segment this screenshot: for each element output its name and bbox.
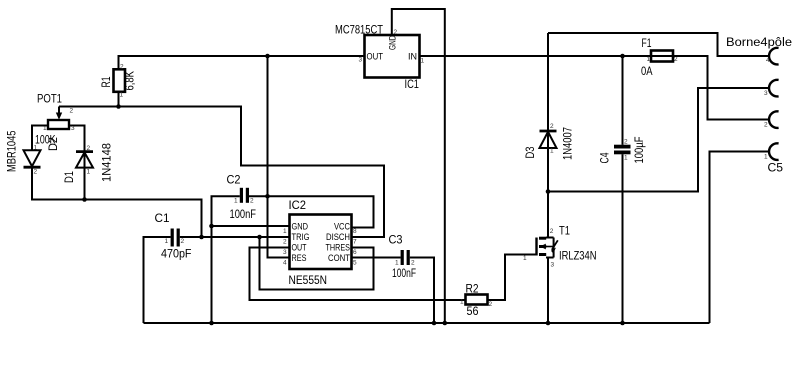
svg-text:C3: C3 [389, 235, 403, 247]
svg-text:3: 3 [764, 90, 768, 97]
svg-text:TRIG: TRIG [292, 232, 310, 242]
node C4 top junction [620, 54, 625, 59]
svg-text:OUT: OUT [292, 243, 307, 253]
svg-text:IRLZ34N: IRLZ34N [559, 251, 597, 263]
svg-text:DISCH: DISCH [326, 232, 350, 242]
wire +15V riser down to 555 RES pin 4 [268, 56, 290, 258]
wire 555 CONT to C3 pin 1 [352, 257, 401, 259]
node ground riser / GND pin tee [209, 224, 214, 229]
svg-text:VCC: VCC [334, 222, 350, 232]
resistor R1 [101, 64, 137, 99]
svg-text:2: 2 [394, 29, 398, 36]
svg-text:1: 1 [764, 154, 768, 161]
diode D2 MBR1045 [7, 131, 61, 176]
svg-text:5: 5 [353, 260, 357, 267]
svg-text:2: 2 [489, 301, 493, 308]
svg-text:3: 3 [283, 249, 287, 256]
capacitor C4 100uF [600, 137, 647, 164]
wire C4 vertical from supply to ground rail [622, 56, 624, 323]
wire ground rail [144, 322, 710, 324]
svg-text:1: 1 [234, 198, 238, 205]
wire R1 bottom to POT1 wiper and DISCH loop [59, 92, 384, 237]
svg-text:Borne4pôle: Borne4pôle [726, 37, 792, 49]
svg-text:R1: R1 [101, 77, 113, 88]
wire 555 GND pin [212, 225, 290, 227]
svg-text:1N4007: 1N4007 [563, 127, 575, 160]
svg-text:2: 2 [181, 238, 185, 245]
wire connector pin 1 riser [710, 152, 770, 324]
svg-text:C5: C5 [768, 163, 784, 175]
wire motor plus from drain net top to connector pin 4 [548, 33, 770, 56]
node D1 anode junction [82, 197, 87, 202]
svg-text:1: 1 [165, 238, 169, 245]
svg-text:3: 3 [359, 57, 363, 64]
svg-text:2: 2 [764, 122, 768, 129]
svg-text:THRES: THRES [326, 243, 351, 253]
node C4 ground junction [620, 321, 625, 326]
capacitor C1 470pF [155, 213, 192, 261]
svg-text:100nF: 100nF [230, 209, 257, 221]
timer IC2 NE555N [283, 200, 357, 287]
svg-text:1: 1 [421, 58, 425, 65]
node TRIG tee junction [257, 235, 262, 240]
svg-text:2: 2 [70, 108, 74, 115]
wire drain tap to connector pin 3 [548, 88, 770, 192]
node C3 ground junction [432, 321, 437, 326]
wire fuse to connector pin 2 [673, 56, 770, 120]
capacitor C2 100nF [227, 175, 257, 222]
transistor T1 IRLZ34N [523, 226, 597, 269]
svg-text:7: 7 [353, 239, 357, 246]
potentiometer POT1 100K [35, 94, 75, 147]
svg-text:1: 1 [624, 155, 628, 162]
node T1 source ground junction [546, 321, 551, 326]
wire D2 cathode down and right to C1/TRIG junction [32, 166, 202, 237]
svg-text:IC1: IC1 [405, 79, 420, 91]
svg-text:C4: C4 [600, 152, 612, 163]
wire IC1 IN to fuse F1 [420, 55, 652, 57]
svg-text:1: 1 [87, 169, 91, 176]
svg-text:470pF: 470pF [161, 249, 192, 261]
wire C1 pin 1 to ground rail [144, 237, 171, 323]
svg-text:CONT: CONT [328, 253, 350, 263]
wire TRIG to THRES loop [260, 237, 374, 290]
svg-text:8: 8 [353, 228, 357, 235]
node C1/diode junction [199, 235, 204, 240]
svg-text:2: 2 [283, 239, 287, 246]
svg-text:100µF: 100µF [634, 137, 646, 164]
svg-text:1: 1 [647, 56, 651, 63]
svg-text:0A: 0A [641, 66, 653, 78]
connector C5 Borne4pole [726, 37, 792, 175]
svg-text:1: 1 [283, 228, 287, 235]
svg-text:2: 2 [250, 198, 254, 205]
svg-text:D1: D1 [64, 171, 76, 183]
svg-text:2: 2 [550, 228, 554, 235]
svg-text:2: 2 [87, 145, 91, 152]
node drain tap junction [546, 189, 551, 194]
svg-text:6,8K: 6,8K [125, 71, 137, 91]
node +15V rail junction [265, 54, 270, 59]
wire POT1 pin 3 down through D1 to junction [69, 126, 85, 200]
svg-text:R2: R2 [466, 284, 479, 296]
svg-text:T1: T1 [559, 226, 570, 238]
svg-text:RES: RES [292, 253, 307, 263]
svg-text:OUT: OUT [367, 52, 384, 62]
wire C1 pin 2 to 555 TRIG [180, 236, 290, 238]
capacitor C3 100nF [389, 235, 417, 281]
wire T1 source to ground rail [547, 258, 549, 324]
resistor R2 56 [460, 284, 493, 319]
svg-text:IN: IN [408, 52, 417, 62]
svg-text:1: 1 [395, 260, 399, 267]
wire +15V rail from R1 top to IC1 OUT [119, 56, 365, 69]
wire IC1 GND loop to ground rail [392, 9, 445, 323]
wire C2 pin 2 to 555 VCC [249, 196, 374, 227]
wire C2 pin 1 to ground riser [212, 196, 240, 323]
svg-text:4: 4 [766, 57, 770, 64]
svg-text:2: 2 [674, 56, 678, 63]
fuse F1 0A [641, 38, 678, 78]
svg-text:POT1: POT1 [37, 94, 62, 106]
svg-text:2: 2 [34, 169, 38, 176]
wire 555 OUT to R2 pin 1 [250, 248, 466, 301]
svg-text:NE555N: NE555N [289, 275, 328, 287]
svg-text:C2: C2 [227, 175, 241, 187]
svg-text:1: 1 [120, 92, 124, 99]
svg-text:100nF: 100nF [392, 268, 416, 280]
svg-text:2: 2 [411, 260, 415, 267]
node R1/POT1 wiper junction [116, 104, 121, 109]
wire R2 pin 2 to T1 gate [488, 255, 537, 301]
svg-text:2: 2 [550, 123, 554, 130]
voltage regulator IC1 MC7815CT [335, 25, 425, 92]
svg-text:MBR1045: MBR1045 [7, 131, 19, 173]
svg-text:GND: GND [292, 222, 309, 232]
svg-text:1: 1 [34, 145, 38, 152]
svg-text:D3: D3 [525, 147, 537, 159]
svg-text:6: 6 [353, 249, 357, 256]
node regulator ground at rail [443, 321, 448, 326]
node VCC riser junction [265, 194, 270, 199]
svg-text:1: 1 [550, 148, 554, 155]
wire C3 pin 2 to ground rail [410, 258, 434, 324]
svg-text:1: 1 [460, 299, 464, 306]
node ground rail at C2 riser [209, 321, 214, 326]
wire POT1 pin 1 down to D2 [32, 126, 48, 151]
svg-text:GND: GND [388, 35, 398, 50]
svg-text:2: 2 [624, 139, 628, 146]
svg-text:1: 1 [523, 255, 527, 262]
svg-text:IC2: IC2 [289, 200, 307, 212]
svg-text:56: 56 [467, 306, 479, 318]
svg-text:F1: F1 [642, 38, 652, 50]
svg-text:3: 3 [551, 262, 555, 269]
svg-text:C1: C1 [155, 213, 170, 225]
svg-text:4: 4 [283, 260, 287, 267]
svg-text:2: 2 [120, 64, 124, 71]
diode D3 1N4007 [525, 123, 575, 160]
svg-text:D2: D2 [48, 137, 60, 151]
wire top rail down through D3 to T1 drain [547, 33, 549, 238]
diode D1 1N4148 [64, 143, 114, 183]
svg-text:1N4148: 1N4148 [102, 143, 114, 182]
svg-text:MC7815CT: MC7815CT [335, 25, 383, 37]
